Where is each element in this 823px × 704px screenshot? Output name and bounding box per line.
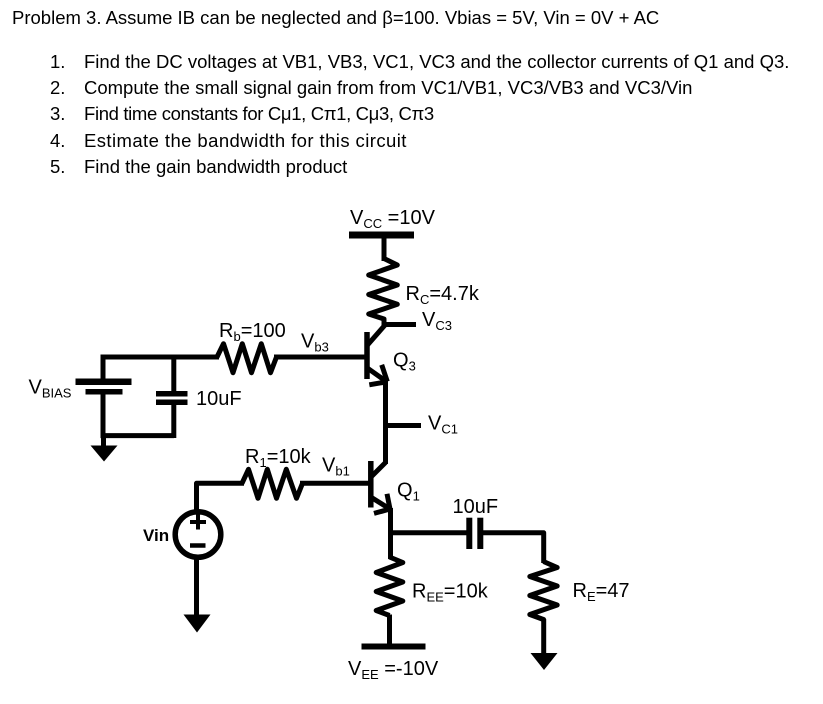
ground (battery)	[91, 435, 118, 462]
title line	[12, 5, 659, 31]
transistor Q3 label	[393, 350, 416, 374]
node VCC label	[350, 207, 436, 231]
svg-text:VC3: VC3	[422, 309, 452, 333]
svg-text:VC1: VC1	[428, 413, 458, 437]
wire VBIAS top rail to Q3 base	[101, 355, 220, 360]
VCC power rail	[349, 232, 414, 239]
source Vin	[175, 512, 221, 558]
transistor Q3	[367, 325, 387, 385]
VBIAS label	[29, 377, 72, 401]
resistor Rb	[217, 344, 277, 373]
capacitor bypass value label 10uF	[196, 388, 242, 410]
svg-text:10uF: 10uF	[196, 388, 242, 410]
resistor R1	[242, 469, 303, 498]
transistor Q1 label	[397, 480, 420, 504]
battery VBIAS	[76, 357, 132, 438]
list item 5	[50, 154, 65, 180]
ground (RE)	[531, 653, 558, 670]
wire Q1 emitter node	[388, 508, 393, 559]
svg-text:RE=47: RE=47	[573, 580, 630, 604]
list item 1	[50, 49, 65, 75]
svg-text:Q1: Q1	[397, 480, 420, 504]
wire Vin to ground	[194, 557, 199, 617]
svg-text:RC=4.7k: RC=4.7k	[406, 283, 480, 307]
list item 2	[50, 75, 65, 101]
node VC3 stub wire	[384, 322, 416, 327]
wire R1 to Q1 base	[300, 481, 371, 486]
svg-text:Q3: Q3	[393, 350, 416, 374]
wire VCC to RC	[382, 235, 387, 261]
svg-text:Rb=100: Rb=100	[219, 320, 286, 344]
resistor RE value label	[573, 580, 630, 604]
svg-text:VEE =-10V: VEE =-10V	[348, 658, 439, 682]
node VC1 label	[428, 413, 458, 437]
resistor RC value label	[406, 283, 480, 307]
svg-text:REE=10k: REE=10k	[412, 581, 489, 605]
resistor RE	[530, 562, 557, 622]
resistor R1 value label	[245, 446, 312, 470]
wire REE to VEE rail	[387, 615, 392, 648]
ground (Vin)	[184, 615, 211, 633]
wire battery bottom to cap bottom	[101, 433, 175, 438]
resistor Rb value label	[219, 320, 286, 344]
svg-text:VCC =10V: VCC =10V	[350, 207, 436, 231]
svg-text:Vb1: Vb1	[322, 455, 350, 479]
transistor Q1	[371, 461, 391, 513]
node VC1 stub wire	[386, 423, 421, 428]
resistor REE	[376, 557, 403, 616]
svg-text:Vb3: Vb3	[301, 331, 329, 355]
list item 3	[50, 101, 65, 127]
wire Q3 emitter to Q1 collector	[383, 380, 388, 464]
wire emitter node to coupling cap	[391, 530, 467, 535]
resistor REE value label	[412, 581, 489, 605]
svg-text:VBIAS: VBIAS	[29, 377, 72, 401]
wire Rb to Q3 base	[274, 355, 367, 360]
node Vb1 label	[322, 455, 350, 479]
node VEE label	[348, 658, 439, 682]
Vin label	[143, 526, 169, 545]
resistor RC	[369, 259, 398, 328]
node VC3 label	[422, 309, 452, 333]
capacitor 10uF (coupling)	[466, 518, 483, 549]
capacitor coupling value label 10uF	[453, 496, 499, 518]
svg-text:10uF: 10uF	[453, 496, 499, 518]
list item 4	[50, 128, 65, 154]
svg-text:Vin: Vin	[143, 526, 169, 545]
VEE power rail	[362, 644, 426, 650]
wire coupling cap to RE	[483, 533, 544, 563]
wire RE to ground	[541, 619, 546, 655]
wire Vin corner to R1	[197, 483, 245, 512]
svg-text:R1=10k: R1=10k	[245, 446, 312, 470]
capacitor 10uF (bypass)	[156, 357, 188, 438]
node Vb3 label	[301, 331, 329, 355]
